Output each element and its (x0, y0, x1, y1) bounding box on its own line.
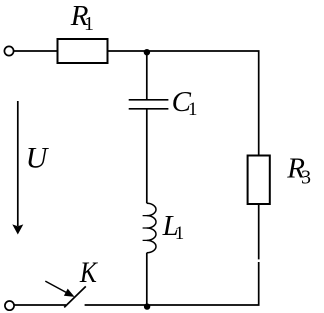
svg-text:1: 1 (188, 99, 198, 120)
svg-text:3: 3 (301, 167, 311, 189)
svg-text:U: U (26, 141, 50, 174)
svg-text:1: 1 (84, 13, 94, 35)
svg-text:1: 1 (175, 223, 185, 244)
svg-text:K: K (79, 256, 99, 289)
